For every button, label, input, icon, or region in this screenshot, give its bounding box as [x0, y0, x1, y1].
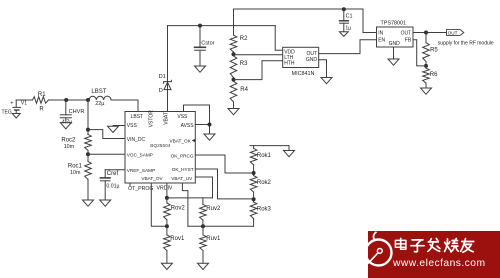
svg-text:VSTOR: VSTOR [148, 110, 154, 128]
resistor R6 [425, 66, 427, 68]
op-chip U1 BQ25504 body [125, 112, 195, 184]
resistor Rov1 [166, 226, 168, 235]
wire VBAT_OV to Rov node [151, 183, 167, 226]
capacitor Cref [105, 169, 125, 171]
svg-text:OUT: OUT [401, 31, 412, 37]
svg-text:Rok2: Rok2 [257, 180, 272, 186]
svg-text:R3: R3 [240, 61, 248, 67]
ground for MIC841N [321, 78, 332, 84]
svg-text:VOC_SAMP: VOC_SAMP [127, 153, 153, 158]
wire TPS GND to ground [393, 47, 395, 59]
resistor Rok2 [250, 176, 257, 193]
wire main input rail [16, 99, 32, 101]
capacitor Cstor [198, 24, 202, 28]
svg-text:10m: 10m [70, 170, 81, 176]
wire Roc2 riser [87, 100, 89, 134]
svg-text:R: R [39, 107, 44, 113]
comparator U2 MIC841N body [283, 47, 319, 67]
svg-text:Ruv2: Ruv2 [206, 206, 221, 212]
ground for V1 [12, 114, 20, 119]
wire MIC OUT to TPS EN [319, 40, 377, 54]
wire MIC GND to ground [319, 60, 327, 78]
svg-text:VSS: VSS [127, 123, 138, 129]
svg-text:Ruv1: Ruv1 [206, 236, 221, 242]
wire rail A top [234, 8, 364, 10]
ground for CHVR [60, 123, 71, 129]
svg-text:OUT: OUT [448, 31, 458, 36]
svg-text:R4: R4 [240, 87, 248, 93]
svg-text:BQ25504: BQ25504 [150, 143, 171, 149]
svg-text:+: + [10, 101, 13, 107]
wire rail A corner to TPS IN [363, 9, 377, 33]
glyph fa [430, 239, 432, 242]
wire OK_PRCG to Rok1-Rok2 node [195, 155, 253, 173]
ground for TPS78001 [388, 59, 399, 65]
node label OUT tag [447, 30, 464, 36]
ground for R6 [421, 88, 432, 94]
wire AVSS pin [195, 124, 209, 126]
resistor Rok3 [250, 202, 257, 219]
wire VSS-top to AVSS net [184, 105, 210, 134]
svg-text:D: D [159, 88, 163, 94]
wire VIN_DC route [88, 130, 125, 139]
wire OK_HYST to Rok2-Rok3 node [195, 169, 253, 199]
resistor Rov2 [166, 198, 168, 203]
capacitor CHVR [65, 100, 67, 115]
svg-text:OT_PROG: OT_PROG [128, 186, 153, 192]
svg-text:D1: D1 [159, 74, 166, 80]
wire FB to R5-R6 node [413, 40, 426, 66]
svg-text:GND: GND [389, 41, 401, 47]
inductor LBST 22u [89, 96, 111, 100]
wire LTH to R2-R3 node [234, 54, 283, 56]
wire HTH to R3-R4 node [234, 61, 283, 80]
ground for Cstor [195, 66, 206, 72]
svg-text:R2: R2 [240, 36, 248, 42]
glyph you [462, 241, 474, 243]
node VOC_SAMP junction [87, 150, 89, 154]
svg-text:1µ: 1µ [345, 26, 351, 32]
svg-text:EN: EN [378, 38, 385, 44]
svg-text:Roc2: Roc2 [61, 137, 76, 143]
svg-text:LBST: LBST [131, 114, 144, 120]
wire VBAT_UV right pin down [195, 177, 212, 198]
wire R4 to ground [233, 102, 235, 109]
resistor R4 [230, 81, 237, 102]
resistor R5 [425, 33, 427, 43]
wire R1 to LBST corner [48, 99, 89, 101]
svg-text:VSS: VSS [177, 114, 188, 120]
svg-text:www.elecfans.com: www.elecfans.com [392, 258, 485, 269]
svg-text:Rok3: Rok3 [257, 206, 272, 212]
glyph shao [445, 239, 448, 252]
svg-text:VBAT_OV: VBAT_OV [141, 176, 163, 181]
watermark elecfans red banner [366, 231, 500, 278]
svg-text:Roc1: Roc1 [68, 164, 83, 170]
node R3-R4 [233, 78, 235, 82]
svg-text:CHVR: CHVR [69, 109, 85, 115]
svg-text:LBST: LBST [91, 89, 106, 95]
svg-text:AVSS: AVSS [181, 123, 195, 129]
svg-text:Cstor: Cstor [201, 40, 215, 46]
svg-text:V1: V1 [21, 100, 27, 106]
ground for R4 [228, 109, 239, 115]
svg-text:R5: R5 [430, 47, 438, 53]
svg-text:VBAT_OK: VBAT_OK [170, 139, 192, 144]
ground for Cref [100, 200, 111, 206]
resistor R1 [33, 97, 49, 104]
svg-text:supply for the RF module: supply for the RF module [438, 40, 494, 46]
wire inductor to chip LBST pin [111, 99, 138, 101]
svg-text:IN: IN [378, 31, 383, 37]
svg-text:VIN_DC: VIN_DC [127, 137, 146, 143]
svg-text:GND: GND [306, 57, 318, 63]
diode D1 [164, 82, 171, 89]
wire bottom rail to Rok3 [188, 225, 254, 227]
regulator U3 TPS78001 body [377, 27, 414, 47]
wire VBAT riser with rail B [167, 26, 169, 112]
svg-text:R1: R1 [38, 92, 46, 98]
ground for AVSS [204, 134, 215, 140]
svg-text:Cref: Cref [107, 171, 119, 177]
resistor Ruv1 [202, 226, 204, 235]
resistor R2 [230, 35, 237, 52]
ground for chip VSS left pin [113, 125, 125, 127]
capacitor C1 [342, 7, 346, 11]
svg-text:TPS78001: TPS78001 [381, 21, 406, 27]
wire VDD riser from rail B [275, 26, 283, 51]
node Roc tap [86, 98, 90, 102]
svg-text:0.01µ: 0.01µ [106, 184, 119, 190]
svg-text:TEG: TEG [2, 109, 12, 115]
watermark logo circle icon [366, 240, 392, 266]
wire Roc1 to ground [87, 179, 89, 200]
svg-text:22µ: 22µ [95, 101, 104, 107]
svg-text:MIC841N: MIC841N [292, 71, 315, 77]
ground for Roc1 [83, 200, 94, 206]
svg-text:Rov1: Rov1 [170, 236, 185, 242]
wire TPS OUT [413, 32, 447, 34]
node R5-R6 FB junction [424, 64, 428, 68]
svg-text:VBAT_UV: VBAT_UV [171, 176, 193, 181]
resistor R3 [230, 56, 237, 78]
glyph dian [400, 238, 402, 249]
svg-text:VREF_SAMP: VREF_SAMP [127, 168, 155, 173]
voltage source V1 (TEG input) [15, 100, 17, 107]
svg-text:10m: 10m [64, 144, 75, 150]
glyph zi [412, 239, 423, 241]
svg-text:OK_HYST: OK_HYST [172, 167, 194, 172]
svg-text:Rov2: Rov2 [171, 205, 186, 211]
ground for Rov1 [161, 263, 172, 269]
ground right of Rok1 [288, 146, 290, 151]
svg-text:HTH: HTH [284, 61, 295, 67]
svg-text:VRDIV: VRDIV [157, 186, 173, 192]
resistor Roc1 10m [87, 154, 89, 161]
resistor Roc2 10m [85, 134, 92, 150]
svg-text:VBAT: VBAT [163, 112, 169, 125]
resistor Rok1 [250, 145, 289, 147]
svg-text:R6: R6 [430, 72, 438, 78]
node R2-R3 [233, 52, 235, 56]
wire VRDIV node [166, 183, 168, 198]
wire VOC_SAMP to chip [88, 153, 125, 155]
ground for C1 [339, 32, 348, 37]
resistor Ruv2 [202, 198, 204, 204]
svg-text:OK_PRCG: OK_PRCG [171, 154, 194, 159]
wire VBAT_UV bottom path [182, 183, 188, 226]
svg-text:Rok1: Rok1 [257, 153, 272, 159]
svg-text:C1: C1 [346, 14, 353, 20]
ground for Ruv1 [198, 263, 209, 269]
node input junction [64, 98, 68, 102]
watermark title 电子发烧友 [395, 238, 473, 252]
svg-text:FB: FB [405, 38, 412, 44]
